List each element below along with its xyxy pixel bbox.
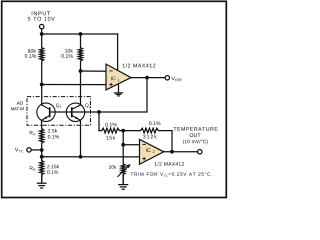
wire divider tap segment (41, 150, 43, 161)
label RA (30, 131, 36, 135)
pot wiper arrow (117, 164, 130, 177)
label 5 TO 10V (28, 17, 55, 21)
wire VREF feedback drop to base node (99, 78, 147, 112)
wire tap down to IC2 inverting input (123, 131, 139, 145)
label RB tolerance 0.1% (47, 170, 58, 174)
resistor 80k 0.1% (40, 34, 44, 85)
label RA value 2.5k (48, 129, 57, 133)
wire VTC terminal to divider (32, 149, 42, 151)
ground (RB) (37, 175, 47, 188)
wire 312k to output node (171, 131, 173, 152)
node 80k/Q1 collector junction (40, 83, 44, 87)
terminal VTC (27, 148, 31, 152)
label 10k tolerance 0.1% (61, 54, 72, 58)
label 80k tolerance 0.1% (25, 54, 36, 58)
node rail/10k junction (79, 32, 83, 36)
wire IC1 supply drop (117, 34, 119, 70)
label 20k (109, 165, 117, 169)
node base/feedback junction (97, 110, 101, 114)
node Q2 emitter junction (79, 155, 83, 159)
node VTC junction (40, 148, 44, 152)
wire tap to IC2 noninverting input (42, 156, 140, 158)
wire Q2 collector riser (80, 71, 82, 105)
wire IC1 output (131, 77, 165, 79)
label 1/2 MAX412 (IC2) (155, 162, 184, 166)
node output/feedback junction (170, 150, 174, 154)
transistor Q1 (37, 103, 55, 121)
wire Q2 emitter drop (80, 120, 82, 156)
ground (IC1) (114, 84, 123, 96)
wire Q1 emitter to RA (41, 120, 43, 128)
label 312k (143, 135, 157, 139)
terminal INPUT (40, 24, 44, 28)
label Q1 (56, 104, 61, 108)
label 312k tolerance 0.1% (149, 121, 160, 125)
ground (pot) (118, 175, 128, 190)
label 15k tolerance 0.1% (105, 123, 116, 127)
terminal TEMPERATURE OUT (198, 150, 202, 154)
wire base node down to 15k (98, 112, 100, 131)
resistor RB 2.15k 0.1% (40, 161, 44, 184)
op-amp IC1 1/2 MAX412 (106, 64, 131, 90)
terminal VREF (165, 76, 169, 80)
label TEMPERATURE (173, 127, 217, 131)
wire 80k node to IC1 noninverting input (42, 84, 106, 86)
wire 10k node to IC1 inverting input (81, 70, 107, 72)
node IC2 inverting junction (121, 143, 125, 147)
label 1/2 MAX412 (IC1) (123, 63, 156, 67)
label 80k (28, 49, 36, 53)
label TRIM FOR VTC=0.25V AT 25C (131, 172, 212, 176)
label 10mV per C (183, 140, 208, 145)
resistor 15k 0.1% (99, 128, 123, 133)
label 10k (65, 49, 73, 53)
package outline AD MAT-04 (27, 97, 91, 126)
resistor 10k 0.1% (79, 34, 83, 71)
label RB (30, 166, 35, 170)
wire Q1 collector riser (41, 85, 43, 106)
op-amp IC2 1/2 MAX412 (140, 139, 164, 164)
transistor Q2 (66, 103, 84, 121)
label VREF (171, 77, 182, 82)
node 15k/312k junction (121, 129, 125, 133)
label Q2 (85, 104, 90, 108)
label RA tolerance 0.1% (48, 135, 59, 139)
wire input terminal to rail (41, 29, 43, 34)
label RB value 2.15k (47, 165, 59, 169)
node rail/80k junction (40, 32, 44, 36)
node output tap junction (40, 155, 44, 159)
wire trim pot top lead (122, 145, 124, 164)
node 10k/Q2 collector junction (79, 69, 83, 73)
label INPUT (32, 12, 50, 16)
wire IC2 output to OUT terminal (164, 151, 197, 153)
node VREF junction (145, 76, 149, 80)
resistor 312k 0.1% (123, 128, 172, 133)
wire transistor base rail (50, 111, 99, 113)
label OUT (190, 133, 201, 137)
resistor RA 2.5k 0.1% (40, 129, 44, 150)
label VTC (15, 148, 23, 153)
label AD MAT-04 (11, 102, 24, 111)
label 15k (106, 136, 115, 140)
wire top supply rail (42, 33, 118, 35)
potentiometer 20k trim (121, 164, 125, 185)
